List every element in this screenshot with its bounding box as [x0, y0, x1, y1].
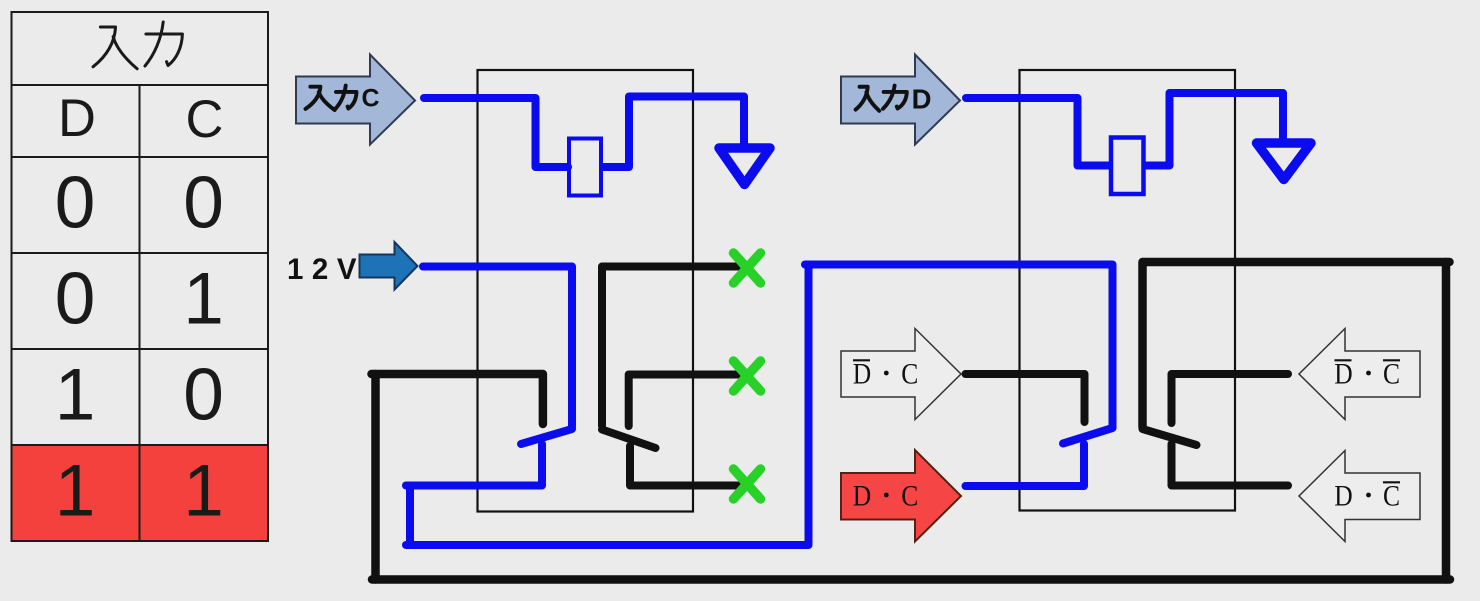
- wire nubs at loop corners: [372, 262, 1451, 580]
- svg-text:1: 1: [55, 451, 96, 532]
- svg-text:D: D: [58, 89, 96, 148]
- output arrow D·C̄ (white, left): [1299, 451, 1420, 542]
- wire: K1 pole1 NC contact around loop to K2 pole2 common: [376, 262, 1447, 580]
- table rows digits: [55, 163, 224, 532]
- relay K2 box: [1020, 70, 1236, 511]
- wire: coil K2 to ground: [1146, 93, 1283, 166]
- wire: K1 pole1 NO contact to K2 pole1 common (blue output): [410, 265, 1113, 546]
- svg-text:1: 1: [183, 451, 224, 532]
- svg-text:D: D: [1334, 480, 1352, 513]
- svg-text:C: C: [361, 85, 379, 113]
- svg-text:1: 1: [55, 355, 96, 436]
- coil K1: [569, 139, 601, 196]
- wire: K2 pole2 NC contact to output D̄·C̄: [1172, 374, 1289, 423]
- X1 not-connected mark: [734, 253, 761, 283]
- svg-text:12V: 12V: [287, 253, 365, 286]
- relay K1 box: [478, 70, 694, 512]
- wire: 12V to K1 pole1 common: [423, 267, 572, 428]
- svg-text:C: C: [901, 358, 918, 391]
- switch blade K1 pole2 (black, open): [602, 430, 656, 449]
- input arrow 入力C: [296, 55, 415, 145]
- input arrow 入力D: [841, 55, 960, 145]
- svg-text:0: 0: [55, 163, 96, 244]
- switch blade K1 pole1 (blue, closed to NO): [521, 429, 572, 444]
- wire: K2 pole2 NO contact to output D·C̄: [1172, 444, 1289, 486]
- X2 not-connected mark: [734, 361, 761, 391]
- ground G2: [1257, 143, 1312, 180]
- wire: 入力C to coil K1: [424, 98, 568, 167]
- svg-text:C: C: [1383, 358, 1400, 391]
- switch blade K2 pole2 (black, open): [1143, 429, 1197, 445]
- output arrow D·C (red, right): [841, 450, 961, 542]
- svg-text:0: 0: [55, 259, 96, 340]
- wire: 入力D to coil K2: [966, 98, 1109, 166]
- svg-text:C: C: [1383, 480, 1400, 513]
- svg-text:D: D: [1334, 358, 1352, 391]
- truth table grid: [12, 12, 269, 541]
- wire: K1 pole2 NO contact to X3: [630, 446, 740, 486]
- svg-text:1: 1: [183, 259, 224, 340]
- svg-text:0: 0: [183, 355, 224, 436]
- wire: K1 pole2 common to X1: [602, 267, 745, 427]
- coil K2: [1111, 138, 1144, 195]
- svg-text:C: C: [901, 480, 918, 513]
- wire: K2 pole1 NO contact to output D·C: [966, 444, 1085, 486]
- switch blade K2 pole1 (blue, closed to NO): [1063, 428, 1113, 444]
- table header text 入力 (hand-drawn glyphs): [93, 22, 182, 69]
- svg-text:0: 0: [183, 163, 224, 244]
- blue wire nubs at corners: [406, 265, 809, 546]
- X3 not-connected mark: [734, 469, 761, 499]
- svg-text:D: D: [853, 480, 871, 513]
- wire: coil K1 to ground: [603, 97, 744, 168]
- ground G1: [719, 148, 770, 185]
- output arrow D̄·C̄ (white, left): [1299, 329, 1420, 420]
- wire: output D̄·C to K2 pole1 NC contact: [966, 374, 1085, 422]
- svg-text:D: D: [912, 84, 932, 115]
- table header D | C: [58, 89, 223, 149]
- svg-text:C: C: [186, 90, 224, 149]
- wire: K1 pole2 NC contact to X2: [629, 375, 742, 427]
- 12V source arrow: [360, 242, 418, 290]
- svg-text:D: D: [853, 358, 871, 391]
- truth table red row (D=1,C=1): [12, 445, 269, 541]
- output arrow D̄·C (white, right): [841, 329, 961, 420]
